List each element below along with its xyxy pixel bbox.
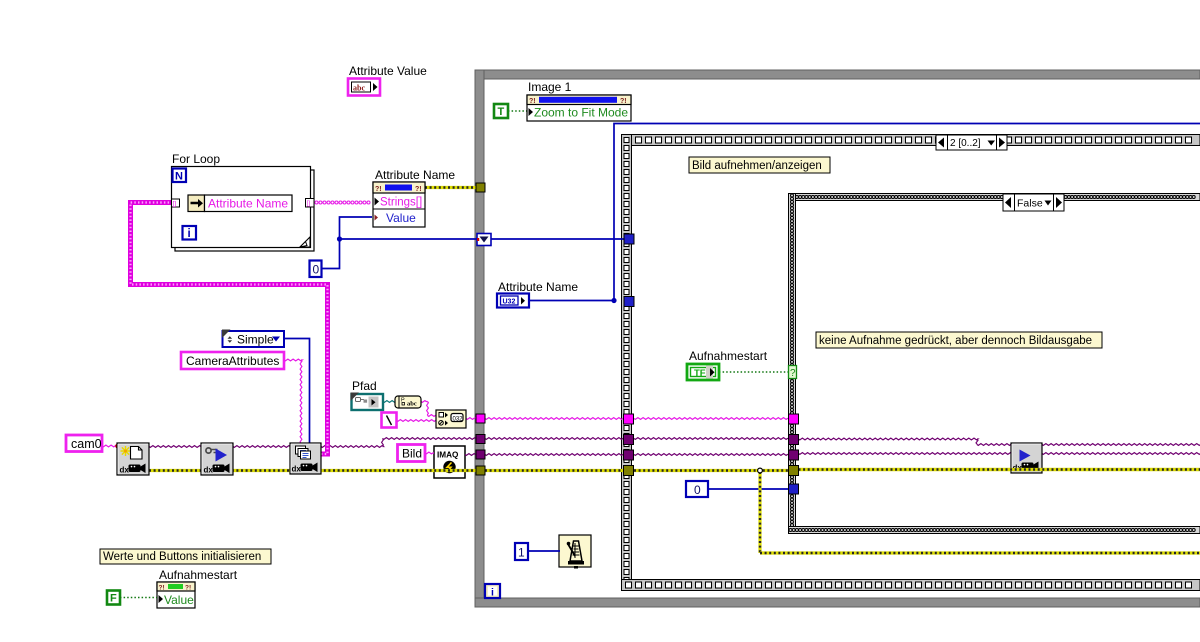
- wire session case gap: [634, 438, 789, 440]
- for loop element arrow block: [188, 195, 205, 212]
- svg-text:Strings[]: Strings[]: [380, 197, 422, 209]
- string constant CameraAttributes: [181, 352, 284, 369]
- numeric constant 0 (inner): [686, 481, 708, 497]
- numeric constant 0 (left): [310, 261, 322, 278]
- svg-text:dx: dx: [204, 466, 214, 475]
- svg-text:dx: dx: [292, 465, 302, 474]
- for loop left tunnel: [172, 199, 180, 208]
- tunnel image array in (shift/tunnel with arrow): [477, 234, 491, 246]
- wire session config-attr: [233, 446, 290, 448]
- svg-text:cam0: cam0: [71, 437, 102, 451]
- svg-text:False: False: [1017, 198, 1043, 210]
- wire error through snap: [799, 468, 1200, 471]
- string constant cam0: [66, 435, 102, 452]
- tunnel image on outer case: [624, 450, 634, 460]
- IMAQdx attributes node icon: [290, 443, 321, 474]
- wire session snap out: [1042, 444, 1200, 446]
- numeric constant 1: [515, 543, 528, 560]
- svg-text:1: 1: [518, 546, 525, 560]
- string indicator Attribute Value: [348, 79, 380, 96]
- wire 1 to wait: [528, 550, 560, 552]
- label Image 1: [528, 80, 572, 94]
- IMAQdx configure grab icon: [201, 443, 233, 475]
- tunnel error on inner case: [789, 466, 799, 476]
- svg-text:?: ?: [790, 368, 796, 379]
- svg-text:?!: ?!: [185, 585, 191, 592]
- label Bild aufnehmen/anzeigen: [689, 157, 830, 173]
- svg-text:Bild aufnehmen/anzeigen: Bild aufnehmen/anzeigen: [692, 160, 822, 172]
- wire error branch down: [758, 468, 1200, 553]
- svg-text:Werte und Buttons initialisier: Werte und Buttons initialisieren: [103, 551, 261, 563]
- TF control terminal: [687, 364, 719, 380]
- wire session tunnel to case: [485, 438, 624, 440]
- tunnel image on loop: [476, 450, 485, 459]
- svg-text:abc: abc: [353, 84, 365, 93]
- svg-text:Simple: Simple: [237, 333, 274, 347]
- label Attribute Name (U32): [498, 280, 578, 294]
- svg-text:032: 032: [453, 417, 464, 423]
- wire error case gap: [634, 469, 799, 472]
- IMAQdx snap icon: [1011, 443, 1042, 473]
- label Werte und Buttons initialisieren: [100, 549, 271, 564]
- svg-text:?!: ?!: [620, 98, 627, 105]
- IMAQ Create function: [434, 446, 465, 478]
- wire session open-config: [149, 446, 201, 448]
- wire error chain cameras: [149, 469, 477, 472]
- IMAQdx open camera icon: [117, 443, 149, 475]
- tunnel string on outer case: [624, 414, 634, 424]
- tunnel error on loop (top): [476, 183, 485, 192]
- svg-text:Value: Value: [386, 211, 416, 225]
- svg-text:Image 1: Image 1: [528, 80, 572, 94]
- wire numeric 0 to inner tunnel: [708, 488, 789, 490]
- svg-text:Value: Value: [164, 593, 194, 607]
- svg-text:dx: dx: [120, 466, 130, 475]
- tunnel string on loop: [476, 414, 485, 423]
- while loop iteration terminal i: [485, 584, 500, 599]
- path control Pfad: [351, 393, 384, 411]
- U32 control terminal: [497, 294, 529, 308]
- wire cam0 to open: [102, 444, 120, 449]
- tunnel image on inner case: [789, 450, 799, 460]
- wire string array to Strings[] (chain): [315, 201, 370, 204]
- for loop frame: [172, 167, 315, 252]
- svg-text:N: N: [175, 171, 183, 183]
- wire blue tunnel to case: [491, 238, 624, 240]
- build path function: [436, 410, 466, 428]
- svg-text:0: 0: [694, 483, 701, 497]
- wire error tunnel to case: [485, 469, 624, 472]
- wire path control to convert: [383, 401, 396, 403]
- wire F to Value: [120, 597, 157, 599]
- tunnel session on outer case: [624, 435, 634, 445]
- wire string case gap: [634, 418, 789, 420]
- wire element to right tunnel: [292, 201, 306, 203]
- wire image IMAQ out: [465, 454, 478, 456]
- inner case structure border: [789, 194, 1200, 534]
- backslash string constant: [382, 413, 397, 428]
- wire string array loop (hatched pink): [131, 203, 328, 455]
- wire image snap out: [1042, 453, 1200, 455]
- svg-text:Zoom to Fit Mode: Zoom to Fit Mode: [534, 106, 628, 120]
- svg-text:Aufnahmestart: Aufnahmestart: [689, 349, 768, 363]
- wire session to snap: [799, 438, 1012, 445]
- label keine Aufnahme: [816, 332, 1102, 348]
- ring constant Simple: [222, 330, 284, 348]
- boolean constant F: [107, 591, 120, 605]
- wire session attr onward: [321, 438, 477, 448]
- wire image to snap: [799, 453, 1012, 455]
- svg-text:i: i: [188, 228, 191, 240]
- for loop element name box: [205, 195, 293, 212]
- wire string past convert: [421, 401, 436, 417]
- outer case selector label 2 [0..2]: [936, 135, 1007, 150]
- svg-text:?!: ?!: [375, 186, 382, 193]
- tunnel numeric on inner case: [789, 484, 799, 494]
- inner case selector label False: [1003, 194, 1064, 211]
- svg-text:abc: abc: [407, 401, 417, 408]
- wait ms metronome function: [559, 535, 591, 569]
- svg-text:For Loop: For Loop: [172, 152, 220, 166]
- wire image case gap: [634, 454, 789, 456]
- wire T to image node: [508, 110, 529, 112]
- svg-text:TF: TF: [694, 368, 706, 379]
- svg-text:[]: []: [307, 200, 311, 207]
- wire image ref blue: [529, 124, 1200, 304]
- wire build out to tunnel: [466, 418, 477, 420]
- svg-text:i: i: [491, 587, 494, 599]
- property node Image 1: [527, 95, 631, 121]
- tunnel session on loop: [476, 435, 485, 444]
- label Attribute Name (property node): [375, 168, 455, 182]
- case selector terminal ?: [789, 366, 797, 380]
- label Aufnahmestart (bottom): [159, 568, 238, 582]
- tunnel error on outer case: [624, 466, 634, 476]
- wire TF to selector: [719, 371, 788, 373]
- wire backslash to build: [397, 420, 437, 422]
- tunnel error on loop (bottom): [476, 466, 485, 475]
- for loop right tunnel: [306, 199, 315, 208]
- boolean constant T: [494, 104, 508, 118]
- svg-text:F: F: [110, 593, 117, 605]
- path to string function: [395, 396, 421, 408]
- for loop count terminal N: [173, 169, 187, 183]
- wire numeric 0 to Value and tunnel: [321, 217, 478, 269]
- property node Attribute Name: [373, 182, 425, 227]
- wire image tunnel to case: [485, 454, 624, 456]
- label Aufnahmestart (TF): [689, 349, 768, 363]
- string constant Bild: [398, 445, 426, 462]
- svg-text:?!: ?!: [159, 585, 165, 592]
- svg-text:IMAQ: IMAQ: [437, 451, 459, 460]
- wire error prop node to loop: [425, 186, 477, 189]
- label Attribute Value: [349, 64, 427, 78]
- svg-text:T: T: [498, 106, 505, 118]
- svg-text:keine Aufnahme gedrückt, aber: keine Aufnahme gedrückt, aber dennoch Bi…: [819, 335, 1092, 347]
- wire string tunnel to case: [485, 418, 624, 420]
- svg-text:Attribute Value: Attribute Value: [349, 64, 427, 78]
- while loop border: [475, 70, 1200, 607]
- label Pfad: [352, 379, 377, 393]
- wire error over snap: [799, 468, 1200, 471]
- svg-text:Attribute Name: Attribute Name: [375, 168, 455, 182]
- tunnel numeric on outer case (upper): [624, 234, 634, 244]
- svg-text:Aufnahmestart: Aufnahmestart: [159, 568, 238, 582]
- svg-text:Pfad: Pfad: [352, 379, 377, 393]
- svg-text:?!: ?!: [415, 186, 422, 193]
- svg-text:2 [0..2]: 2 [0..2]: [950, 138, 981, 149]
- svg-text:U32: U32: [503, 298, 516, 305]
- wire ring Simple to node: [284, 339, 310, 444]
- svg-text:Attribute Name: Attribute Name: [498, 280, 578, 294]
- svg-text:[]: []: [173, 201, 177, 208]
- tunnel numeric on outer case (U32): [624, 297, 634, 307]
- wire Bild to IMAQ create: [425, 452, 434, 454]
- svg-text:?!: ?!: [529, 98, 536, 105]
- tunnel session on inner case: [789, 435, 799, 445]
- svg-text:CameraAttributes: CameraAttributes: [186, 354, 279, 368]
- property node Aufnahmestart Value: [157, 582, 195, 608]
- outer case structure border: [622, 135, 1200, 591]
- svg-text:Bild: Bild: [402, 447, 422, 461]
- wire CameraAttributes to node: [284, 359, 302, 443]
- svg-text:0: 0: [313, 263, 320, 277]
- for loop iteration terminal i: [183, 226, 197, 240]
- label For Loop: [172, 152, 220, 166]
- wire left tunnel to element: [179, 202, 188, 204]
- tunnel string on inner case: [789, 414, 799, 424]
- svg-text:Attribute Name: Attribute Name: [208, 197, 288, 211]
